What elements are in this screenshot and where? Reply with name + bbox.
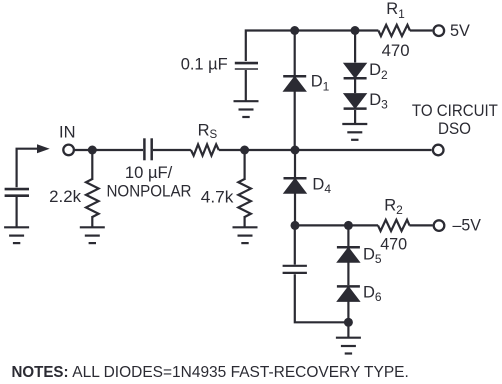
svg-text:470: 470 — [380, 236, 407, 254]
svg-text:D3: D3 — [369, 91, 388, 112]
wire: junction down to 4.7k — [244, 150, 246, 180]
node: junction lower rail / D5 column — [344, 221, 353, 230]
node: junction at 4.7k top — [240, 146, 249, 155]
node: junction at IN / 2.2k — [88, 146, 97, 155]
svg-text:D2: D2 — [369, 61, 388, 82]
diode D4 — [284, 178, 307, 193]
svg-text:0.1 µF: 0.1 µF — [181, 56, 228, 74]
wire: D2 to D3 — [354, 80, 356, 94]
wire: 0.1uF corner to top rail — [246, 31, 295, 62]
svg-text:NONPOLAR: NONPOLAR — [107, 182, 192, 200]
svg-text:2.2k: 2.2k — [49, 188, 82, 206]
wire: 0.1uF cap to its ground — [245, 70, 247, 101]
wire: junction down to 2.2k — [91, 150, 93, 180]
wire: D1 to signal junction — [294, 91, 296, 150]
diode D3 — [344, 94, 367, 109]
diode D2 — [344, 63, 367, 78]
svg-text:R1: R1 — [386, 0, 405, 21]
svg-text:470: 470 — [382, 42, 410, 60]
wire: cap to ground — [16, 197, 18, 227]
wire: D6 to bottom junction — [347, 301, 349, 322]
terminal -5V (open circle) — [434, 220, 445, 231]
wire: R2 to -5V terminal — [409, 224, 432, 226]
wire: D2 column rail to D2 — [354, 31, 356, 63]
terminal IN (open circle) — [63, 145, 74, 156]
svg-text:IN: IN — [59, 124, 76, 142]
svg-text:D1: D1 — [311, 73, 330, 94]
node: junction top rail / D1 column — [290, 26, 299, 35]
svg-text:DSO: DSO — [438, 120, 471, 138]
ground at bottom junction — [336, 338, 361, 354]
wire: coupling cap to Rs — [153, 149, 191, 151]
svg-text:RS: RS — [198, 121, 218, 141]
wire: signal junction to D4 — [294, 150, 296, 177]
resistor R1 — [378, 25, 410, 36]
node: junction at D1/D4 column on signal line — [291, 146, 300, 155]
wire: IN to coupling cap — [75, 149, 143, 151]
svg-text:R2: R2 — [384, 197, 403, 218]
wire: far-left corner (vertical + horizontal to arrow) — [17, 149, 37, 188]
wire: top rail — [295, 29, 379, 31]
capacitor 0.1uF branch — [246, 31, 295, 102]
wire: D5 to D6 — [347, 262, 349, 285]
wire: bottom junction to ground — [347, 322, 349, 337]
svg-text:4.7k: 4.7k — [201, 189, 234, 207]
capacitor (unlabeled, lower left) — [283, 265, 307, 267]
resistor 4.7k — [238, 179, 251, 217]
terminal 5V (open circle) — [434, 25, 445, 36]
svg-text:–5V: –5V — [453, 217, 481, 235]
svg-text:D4: D4 — [312, 176, 331, 197]
svg-text:NOTES:: NOTES: — [12, 364, 69, 381]
wire: signal line to DSO terminal — [295, 149, 432, 151]
wire: D1 column top rail to D1 — [294, 31, 296, 76]
wire: R1 to 5V terminal — [410, 29, 433, 31]
svg-text:ALL DIODES=1N4935 FAST-RECOVER: ALL DIODES=1N4935 FAST-RECOVERY TYPE. — [72, 364, 409, 381]
wire: D3 to ground — [354, 110, 356, 124]
wire: capacitor down and right to bottom junction — [295, 274, 349, 322]
arrowhead into IN — [37, 144, 50, 153]
ground under 0.1uF — [234, 101, 259, 117]
capacitor 10uF nonpolar (series plates) — [144, 138, 151, 160]
diode D1 — [283, 76, 306, 91]
resistor 2.2k — [86, 179, 99, 217]
wire: D4 to lower rail — [294, 193, 296, 225]
ground under 4.7k — [233, 227, 258, 243]
ground under 2.2k — [80, 227, 105, 243]
ground under far-left capacitor — [4, 227, 29, 243]
diode D6 — [337, 286, 360, 301]
wire: lower-left column rail to capacitor — [294, 225, 296, 264]
capacitor far-left (no label) — [5, 189, 29, 196]
diode D5 — [337, 247, 360, 262]
resistor R2 — [378, 220, 410, 231]
wire: lower rail — [295, 224, 378, 226]
wire: 4.7k to ground — [244, 216, 246, 227]
node: bottom junction — [344, 318, 353, 327]
wire: 2.2k to ground — [91, 216, 93, 227]
node: junction top rail / D2 column — [351, 26, 360, 35]
resistor RS — [191, 144, 219, 155]
wire: Rs to 4.7k junction and on to D column junction — [219, 149, 295, 151]
svg-text:5V: 5V — [450, 22, 470, 40]
svg-text:D5: D5 — [363, 245, 382, 266]
wire: D5 column rail to D5 — [347, 225, 349, 246]
ground under D3 — [342, 124, 367, 140]
svg-text:TO CIRCUIT: TO CIRCUIT — [412, 102, 498, 120]
capacitor 0.1uF plates — [235, 62, 258, 65]
terminal DSO (open circle) — [433, 145, 444, 156]
svg-text:D6: D6 — [363, 283, 382, 304]
node: junction lower rail / D4 column — [291, 221, 300, 230]
svg-text:10 µF/: 10 µF/ — [125, 164, 173, 182]
